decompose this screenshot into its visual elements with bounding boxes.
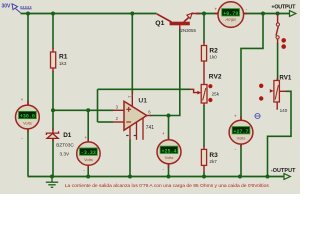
svg-text:RV1: RV1 [279,74,291,81]
svg-text:+27.7: +27.7 [233,129,248,135]
svg-text:2k7: 2k7 [209,159,217,164]
svg-text:R2: R2 [209,47,218,54]
svg-text:R1: R1 [59,54,68,61]
svg-text:1k3: 1k3 [59,61,67,66]
svg-text:2N3055: 2N3055 [181,28,197,33]
svg-text:BZT03C: BZT03C [56,143,74,148]
svg-text:+0.79: +0.79 [223,11,238,17]
svg-text:+: + [214,7,217,12]
svg-text:+OUTPUT: +OUTPUT [271,4,296,10]
svg-text:741: 741 [146,125,155,131]
svg-text:Volts: Volts [23,120,32,125]
svg-text:RV2: RV2 [209,74,222,81]
svg-text:1k0: 1k0 [209,55,217,60]
svg-text:+: + [21,97,24,102]
svg-text:25k: 25k [212,91,220,96]
svg-text:Volts: Volts [237,136,246,141]
svg-text:140: 140 [280,108,288,113]
svg-text:3.3V: 3.3V [60,151,71,156]
svg-text:Amps: Amps [224,17,237,22]
svg-text:+: + [84,135,87,140]
svg-text:+: + [234,113,237,118]
svg-text:Volts: Volts [84,157,93,162]
svg-text:Q1: Q1 [155,20,164,27]
svg-text:La corriente de salida alcanza: La corriente de salida alcanza los 0'79 … [65,183,270,189]
svg-text:Volts: Volts [165,155,174,160]
svg-text:-3.33: -3.33 [81,150,96,156]
svg-text:U1: U1 [138,97,147,104]
svg-text:+25.4: +25.4 [161,148,176,154]
svg-text:+: + [162,131,165,136]
svg-text:+30.0: +30.0 [20,114,35,120]
svg-text:D1: D1 [63,132,72,139]
svg-text:30V: 30V [2,3,12,9]
svg-text:R3: R3 [209,152,218,159]
svg-text:-OUTPUT: -OUTPUT [271,168,296,174]
